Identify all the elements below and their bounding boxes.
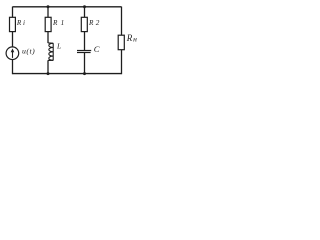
wire branch3 top (node to R2)	[84, 7, 86, 18]
svg-text:R: R	[16, 19, 22, 27]
source u(t) circle	[6, 47, 19, 60]
wire top rail	[13, 6, 122, 8]
wire left branch Ri to source	[12, 31, 14, 47]
svg-text:2: 2	[96, 19, 100, 27]
source arrow	[11, 48, 15, 58]
svg-text:R: R	[52, 19, 58, 27]
wire branch3 R2 to capacitor	[84, 31, 86, 50]
svg-text:R: R	[126, 33, 133, 43]
resistor R1	[45, 17, 51, 31]
svg-text:i: i	[23, 19, 25, 27]
wire left branch source to bottom	[12, 59, 14, 74]
svg-text:L: L	[56, 42, 61, 51]
node bottom branch3	[83, 72, 86, 75]
svg-text:1: 1	[61, 19, 65, 27]
wire bottom rail	[13, 73, 122, 75]
wire branch2 coil to bottom	[47, 60, 49, 74]
resistor R2	[81, 17, 87, 31]
svg-text:u(t): u(t)	[22, 46, 35, 55]
wire branch2 top (node to R1)	[47, 7, 49, 18]
node top branch3	[83, 5, 86, 8]
capacitor C plates	[77, 51, 91, 53]
wire branch3 capacitor to bottom	[84, 53, 86, 75]
svg-text:C: C	[94, 44, 100, 54]
node top branch2	[47, 5, 50, 8]
inductor L coil	[48, 43, 53, 61]
wire right branch Rn to bottom	[121, 49, 123, 74]
wire branch2 R1 to coil	[47, 31, 49, 43]
node bottom branch2	[47, 72, 50, 75]
resistor Rn load	[118, 35, 124, 50]
resistor Ri	[10, 17, 16, 31]
wire right branch top (corner to Rn)	[121, 7, 123, 36]
wire left branch top (corner to Ri)	[12, 7, 14, 18]
svg-text:н: н	[133, 35, 137, 44]
svg-text:R: R	[88, 19, 94, 27]
